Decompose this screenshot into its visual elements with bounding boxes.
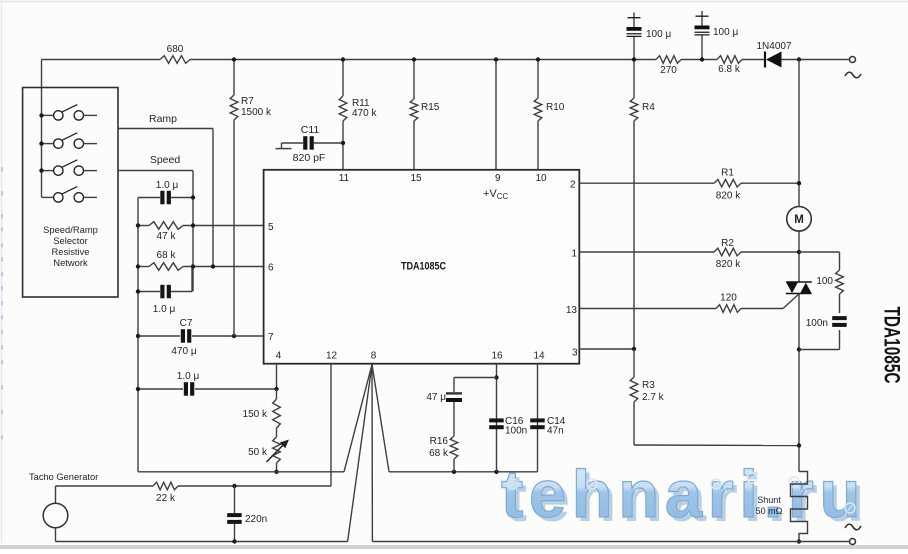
svg-text:50 mΩ: 50 mΩ [756, 506, 783, 516]
svg-text:tehnari.ru: tehnari.ru [501, 457, 866, 532]
svg-text:4: 4 [276, 351, 282, 362]
svg-text:R7: R7 [241, 96, 254, 107]
svg-text:820 k: 820 k [716, 191, 741, 202]
svg-text:1.0 μ: 1.0 μ [153, 304, 176, 315]
svg-text:Tacho Generator: Tacho Generator [29, 472, 98, 482]
svg-text:1.0 μ: 1.0 μ [177, 371, 200, 382]
svg-text:100n: 100n [505, 426, 527, 437]
svg-text:100 μ: 100 μ [646, 29, 671, 40]
svg-text:2.7 k: 2.7 k [642, 392, 665, 403]
svg-text:100: 100 [816, 276, 833, 287]
svg-text:16: 16 [491, 351, 503, 362]
svg-text:100 μ: 100 μ [713, 27, 738, 38]
svg-text:680: 680 [167, 44, 184, 55]
svg-text:150 k: 150 k [243, 409, 268, 420]
svg-text:820 k: 820 k [716, 259, 741, 270]
svg-text:R1: R1 [721, 168, 734, 179]
svg-text:R3: R3 [642, 380, 655, 391]
svg-text:R10: R10 [546, 102, 565, 113]
svg-text:Speed: Speed [150, 154, 181, 166]
svg-text:47n: 47n [547, 426, 564, 437]
svg-text:9: 9 [495, 173, 501, 184]
svg-text:22 k: 22 k [156, 493, 176, 504]
svg-text:5: 5 [268, 222, 274, 233]
svg-text:Network: Network [53, 257, 88, 268]
svg-text:10: 10 [535, 173, 547, 184]
svg-text:Resistive: Resistive [51, 246, 89, 257]
svg-text:Ramp: Ramp [149, 113, 177, 125]
svg-text:7: 7 [268, 332, 274, 343]
svg-text:TDA1085C: TDA1085C [401, 261, 446, 273]
svg-text:1.0 μ: 1.0 μ [156, 180, 179, 191]
svg-text:6: 6 [268, 263, 274, 274]
svg-text:14: 14 [533, 351, 545, 362]
svg-text:R16: R16 [430, 436, 449, 447]
svg-text:1: 1 [571, 249, 577, 260]
svg-text:3: 3 [572, 348, 578, 359]
svg-text:470 μ: 470 μ [171, 346, 196, 357]
svg-text:Shunt: Shunt [757, 495, 781, 505]
svg-text:15: 15 [410, 173, 422, 184]
svg-text:C11: C11 [301, 124, 320, 136]
svg-text:220n: 220n [245, 514, 267, 525]
svg-text:68 k: 68 k [157, 250, 177, 261]
svg-text:12: 12 [326, 351, 338, 362]
svg-text:50 k: 50 k [248, 447, 268, 458]
svg-text:100n: 100n [806, 318, 828, 329]
svg-text:820 pF: 820 pF [293, 152, 326, 164]
svg-text:C7: C7 [180, 318, 193, 329]
svg-text:13: 13 [566, 305, 578, 316]
svg-text:Speed/Ramp: Speed/Ramp [43, 224, 98, 235]
svg-text:8: 8 [371, 351, 377, 362]
svg-text:68 k: 68 k [429, 448, 449, 459]
svg-text:R4: R4 [642, 102, 655, 113]
svg-text:R2: R2 [721, 238, 734, 249]
svg-text:Selector: Selector [53, 235, 87, 246]
svg-text:M: M [794, 214, 804, 226]
svg-text:R15: R15 [421, 102, 440, 113]
svg-text:270: 270 [660, 65, 677, 76]
svg-text:470 k: 470 k [352, 108, 377, 119]
svg-text:47 μ: 47 μ [426, 392, 446, 403]
svg-text:120: 120 [720, 293, 737, 304]
svg-text:2: 2 [570, 180, 576, 191]
svg-text:47 k: 47 k [157, 231, 177, 242]
svg-text:11: 11 [339, 173, 350, 184]
svg-text:1N4007: 1N4007 [756, 41, 791, 52]
svg-text:TDA1085C: TDA1085C [880, 307, 905, 384]
svg-text:6.8 k: 6.8 k [718, 64, 741, 75]
svg-text:1500 k: 1500 k [241, 107, 272, 118]
